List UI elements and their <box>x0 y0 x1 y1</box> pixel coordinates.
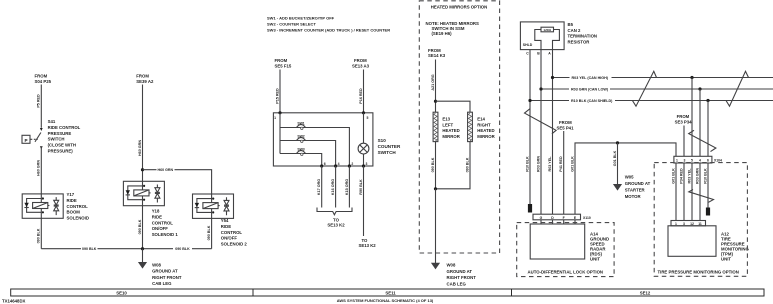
switch SW2 <box>280 141 336 167</box>
svg-text:SE3 P34: SE3 P34 <box>675 119 693 124</box>
solenoid Y17 <box>22 194 63 218</box>
wire CAN high drop (pin A) <box>552 50 554 215</box>
svg-text:CONTROL: CONTROL <box>152 220 174 225</box>
svg-text:COUNTER: COUNTER <box>378 144 401 149</box>
svg-text:HEATED MIRRORS OPTION: HEATED MIRRORS OPTION <box>431 5 488 10</box>
node mirror junction top <box>434 100 437 103</box>
svg-text:GROUND AT: GROUND AT <box>152 269 178 274</box>
wire 090 BLK below Y54 <box>211 218 213 248</box>
svg-text:AUTO-DIFFERENTIAL LOCK OPTION: AUTO-DIFFERENTIAL LOCK OPTION <box>528 269 604 274</box>
svg-text:RIGHT FRONT: RIGHT FRONT <box>152 275 182 280</box>
svg-text:P41 RED: P41 RED <box>559 156 563 172</box>
svg-text:AWS SYSTEM FUNCTIONAL SCHEMATI: AWS SYSTEM FUNCTIONAL SCHEMATIC (4 OF 13… <box>337 298 434 303</box>
svg-text:6: 6 <box>707 159 709 163</box>
svg-text:3: 3 <box>684 159 686 163</box>
svg-text:H60 GRN: H60 GRN <box>158 168 174 172</box>
wire CAN shield drop (pin C) <box>529 50 531 204</box>
resistor box B5 <box>520 22 564 50</box>
svg-text:TIRE PRESSURE MONITORING OPTIO: TIRE PRESSURE MONITORING OPTION <box>658 269 739 274</box>
svg-text:SE10: SE10 <box>116 290 127 295</box>
svg-text:SWITCH: SWITCH <box>48 137 65 142</box>
wire CAN YEL drop <box>691 78 693 157</box>
svg-text:RIDE: RIDE <box>152 214 162 219</box>
wire K16 ORG <box>335 166 337 208</box>
wire H60 GRN to Y54 <box>143 170 212 194</box>
ground W08 <box>139 262 147 268</box>
svg-text:S41: S41 <box>48 119 56 124</box>
svg-text:SW1: SW1 <box>297 121 304 125</box>
svg-text:R03 YEL (CAN HIGH): R03 YEL (CAN HIGH) <box>572 76 609 80</box>
svg-text:R10 BLK (CAN SHIELD): R10 BLK (CAN SHIELD) <box>571 99 613 103</box>
svg-text:BOOM: BOOM <box>67 210 81 215</box>
svg-text:SE13 K2: SE13 K2 <box>327 223 345 228</box>
twist symbol 5 <box>689 190 714 203</box>
svg-text:PRESSURE: PRESSURE <box>48 131 72 136</box>
svg-text:R03 YEL: R03 YEL <box>548 156 552 172</box>
svg-text:SE14 K3: SE14 K3 <box>428 53 446 58</box>
wire G01 BLK to ground <box>617 143 619 184</box>
svg-text:090 BLK: 090 BLK <box>138 219 142 234</box>
svg-text:R03 GRN: R03 GRN <box>536 156 540 172</box>
pin 6 <box>320 164 323 167</box>
twist symbol 3 <box>525 109 557 134</box>
svg-text:120Ω: 120Ω <box>543 28 551 32</box>
wire rail inside <box>279 113 281 154</box>
svg-text:090 BLK: 090 BLK <box>175 247 190 251</box>
pin 5 <box>362 111 365 114</box>
section bar <box>11 289 764 296</box>
twist symbol 2 <box>726 71 749 106</box>
svg-text:Y17: Y17 <box>67 192 75 197</box>
svg-text:CAB LEG: CAB LEG <box>152 281 172 286</box>
wire K15 ORG <box>348 166 350 208</box>
svg-text:SE13 K2: SE13 K2 <box>359 243 377 248</box>
svg-text:TERMINATION: TERMINATION <box>568 34 598 39</box>
wire CAN LOW bus <box>541 88 773 90</box>
wire P5 RED <box>40 85 42 128</box>
switch SW3 <box>280 154 322 167</box>
svg-text:SHLD: SHLD <box>523 43 533 47</box>
svg-text:090 BLK: 090 BLK <box>82 247 97 251</box>
node W05 junction <box>616 141 619 144</box>
svg-text:SW2: SW2 <box>297 134 304 138</box>
svg-text:X110: X110 <box>583 216 591 220</box>
switch SW1 <box>280 128 349 167</box>
ground W05 <box>614 184 622 190</box>
svg-text:090 BLK: 090 BLK <box>37 228 41 243</box>
pin 4 <box>334 164 337 167</box>
pressure actuator P box <box>22 135 30 143</box>
svg-text:H60 GRN: H60 GRN <box>138 140 142 156</box>
wire to E14 <box>436 101 471 112</box>
svg-text:R03 GRN: R03 GRN <box>695 168 699 184</box>
svg-text:SOLENOID: SOLENOID <box>67 216 89 221</box>
wire G01 BLK ground run <box>575 143 676 214</box>
svg-text:RIGHT: RIGHT <box>477 122 491 127</box>
svg-text:STARTER: STARTER <box>625 187 646 192</box>
svg-text:4: 4 <box>338 162 340 166</box>
svg-text:090 BLK: 090 BLK <box>431 157 435 172</box>
wire 090 BLK below E14 <box>436 142 471 189</box>
svg-text:CAN 2: CAN 2 <box>568 28 582 33</box>
wire R10 BLK taped <box>707 163 709 208</box>
svg-text:G01 BLK: G01 BLK <box>671 168 675 184</box>
ground W08 (mirrors) <box>432 263 440 269</box>
wire R03 YEL drop <box>691 163 693 221</box>
wire 090 BLK below E13 <box>435 142 437 189</box>
svg-text:SE39 A2: SE39 A2 <box>136 79 154 84</box>
svg-text:S04 P25: S04 P25 <box>35 79 52 84</box>
taped wire block <box>706 208 710 216</box>
svg-text:GROUND AT: GROUND AT <box>625 181 651 186</box>
svg-text:MOTOR: MOTOR <box>625 194 642 199</box>
svg-text:UNIT: UNIT <box>721 257 731 262</box>
svg-text:K16 ORG: K16 ORG <box>331 179 335 195</box>
svg-text:P5 RED: P5 RED <box>37 94 41 108</box>
svg-text:1: 1 <box>274 116 276 120</box>
svg-text:GROUND AT: GROUND AT <box>447 269 473 274</box>
svg-text:W08: W08 <box>152 262 161 267</box>
svg-text:P15 RED: P15 RED <box>275 88 279 104</box>
svg-text:K17 ORG: K17 ORG <box>317 179 321 195</box>
node junction H60 <box>141 168 144 171</box>
pin 1 <box>278 111 281 114</box>
svg-text:SE5 P41: SE5 P41 <box>557 125 575 130</box>
svg-text:R03 YEL: R03 YEL <box>687 168 691 184</box>
svg-text:R10 BLK: R10 BLK <box>703 168 707 184</box>
svg-text:LEFT: LEFT <box>442 122 453 127</box>
svg-text:2: 2 <box>351 162 353 166</box>
wire K17 ORG <box>321 166 323 208</box>
wire H60 GRN vertical <box>142 85 144 182</box>
svg-text:1: 1 <box>675 222 677 226</box>
svg-text:MIRROR: MIRROR <box>442 134 460 139</box>
svg-text:SWITCH: SWITCH <box>378 150 397 155</box>
wire to ground <box>142 249 144 263</box>
svg-text:SE11: SE11 <box>385 290 396 295</box>
svg-text:W05: W05 <box>625 174 634 179</box>
svg-text:CONTROL: CONTROL <box>221 230 243 235</box>
svg-text:PRESSURE): PRESSURE) <box>48 149 74 154</box>
node mirror junction bottom <box>434 187 437 190</box>
svg-text:SE5 F15: SE5 F15 <box>275 63 292 68</box>
option box heated mirrors <box>419 1 499 253</box>
svg-text:3: 3 <box>683 222 685 226</box>
svg-text:SW3: SW3 <box>297 147 304 151</box>
svg-text:SE12: SE12 <box>640 290 651 295</box>
wire P16 RED <box>363 70 365 113</box>
svg-text:12: 12 <box>690 222 694 226</box>
svg-text:11: 11 <box>698 222 702 226</box>
svg-text:5: 5 <box>367 116 369 120</box>
heater element E14 <box>468 112 473 141</box>
wire CAN SHIELD bus <box>530 100 773 102</box>
twist symbol 1 <box>632 71 656 106</box>
svg-text:R90 BLK: R90 BLK <box>359 179 363 195</box>
svg-text:H60 GRN: H60 GRN <box>37 160 41 176</box>
svg-text:ON/OFF: ON/OFF <box>221 236 238 241</box>
svg-text:090 BLK: 090 BLK <box>207 225 211 240</box>
wire R90 BLK <box>363 166 365 236</box>
lamp counter light <box>363 113 365 143</box>
pin 3 <box>362 164 365 167</box>
svg-text:1: 1 <box>676 159 678 163</box>
switch S41 contact arrows <box>40 128 43 131</box>
connector X104 <box>674 156 712 163</box>
svg-text:G: G <box>540 216 543 220</box>
svg-text:6: 6 <box>324 162 326 166</box>
svg-text:P: P <box>24 138 27 143</box>
unit A14 radar <box>530 224 585 259</box>
solenoid Y18 <box>123 181 164 205</box>
svg-text:SW1 - ADD BUCKET/ZERO/TIP OFF: SW1 - ADD BUCKET/ZERO/TIP OFF <box>267 15 335 20</box>
svg-text:Y18: Y18 <box>152 209 160 214</box>
wire CAN GRN drop <box>699 89 701 156</box>
svg-text:4: 4 <box>699 159 701 163</box>
svg-text:E14: E14 <box>477 116 485 121</box>
svg-text:(CLOSE WITH: (CLOSE WITH <box>48 143 76 148</box>
pin 2 <box>348 164 351 167</box>
wire to ground <box>435 189 437 263</box>
svg-text:UNIT: UNIT <box>590 257 600 262</box>
wire P41 RED <box>563 131 565 214</box>
twist symbol 4 <box>689 130 716 151</box>
svg-text:W08: W08 <box>447 263 456 268</box>
wire G01 BLK drop <box>675 163 677 221</box>
svg-text:Y54: Y54 <box>221 218 229 223</box>
resistor 120 ohm <box>541 27 554 32</box>
svg-text:E13: E13 <box>442 116 450 121</box>
svg-text:TX14648DX: TX14648DX <box>2 299 26 304</box>
svg-text:A21 ORG: A21 ORG <box>431 74 435 90</box>
switch box S10 <box>273 113 373 166</box>
svg-text:CAB LEG: CAB LEG <box>447 282 467 287</box>
wire resistor leads <box>535 30 541 50</box>
svg-text:SE13 A3: SE13 A3 <box>352 63 370 68</box>
wire CAN low drop (pin B) <box>540 50 542 215</box>
svg-text:HEATED: HEATED <box>477 128 494 133</box>
brace to SE13 <box>317 208 352 215</box>
solenoid Y54 <box>193 194 234 218</box>
svg-text:P34 RED: P34 RED <box>679 168 683 184</box>
option box tire pressure monitoring <box>654 163 747 277</box>
node ground junction <box>141 247 144 250</box>
svg-text:RIDE: RIDE <box>221 224 231 229</box>
wire A21 ORG <box>435 60 437 113</box>
wire 090 BLK ground bus <box>41 248 211 250</box>
svg-text:R03 GRN (CAN LOW): R03 GRN (CAN LOW) <box>571 88 609 92</box>
svg-text:RIDE CONTROL: RIDE CONTROL <box>48 125 81 130</box>
svg-text:S10: S10 <box>378 138 387 143</box>
wire P34 RED <box>683 126 685 157</box>
wire CAN HIGH bus <box>553 77 773 79</box>
connector A12 header <box>671 221 706 226</box>
svg-text:MIRROR: MIRROR <box>477 134 495 139</box>
svg-text:SW2 - COUNTER SELECT: SW2 - COUNTER SELECT <box>267 21 316 26</box>
taped wire R10 BLK <box>528 204 532 213</box>
heater element E13 <box>433 112 438 141</box>
svg-text:P16 RED: P16 RED <box>359 88 363 104</box>
svg-text:CONTROL: CONTROL <box>67 204 89 209</box>
wire 090 BLK below Y18 <box>142 206 144 249</box>
svg-text:(SE19 H6): (SE19 H6) <box>432 31 453 36</box>
svg-text:090 BLK: 090 BLK <box>465 157 469 172</box>
svg-text:SOLENOID 1: SOLENOID 1 <box>152 232 179 237</box>
wire R03 GRN drop <box>699 163 701 221</box>
wire 090 BLK below Y17 <box>40 218 42 248</box>
svg-text:5: 5 <box>691 159 693 163</box>
svg-text:K15 ORG: K15 ORG <box>345 179 349 195</box>
wire CAN BLK drop <box>707 101 709 157</box>
svg-text:RIDE: RIDE <box>67 198 77 203</box>
svg-text:F: F <box>563 216 565 220</box>
wire P34 RED drop <box>683 163 685 221</box>
svg-text:B5: B5 <box>568 22 574 27</box>
svg-text:ON/OFF: ON/OFF <box>152 226 169 231</box>
svg-text:G01 BLK: G01 BLK <box>613 150 617 166</box>
wire stubs X110 to A14 <box>541 220 575 224</box>
svg-text:3: 3 <box>366 162 368 166</box>
svg-text:G01 BLK: G01 BLK <box>570 156 574 172</box>
switch S41 blade <box>35 133 41 142</box>
svg-text:R10 BLK: R10 BLK <box>525 156 529 172</box>
connector X110 <box>533 214 581 220</box>
wire P15 RED <box>279 70 281 113</box>
svg-text:SOLENOID 2: SOLENOID 2 <box>221 242 248 247</box>
svg-text:HEATED: HEATED <box>442 128 459 133</box>
option box auto-differential lock <box>517 223 614 277</box>
svg-text:SW3 - INCREMENT COUNTER (ADD T: SW3 - INCREMENT COUNTER (ADD TRUCK ) / R… <box>267 27 390 32</box>
svg-text:RIGHT FRONT: RIGHT FRONT <box>447 275 477 280</box>
unit A12 TPM <box>668 226 716 256</box>
svg-text:RESISTOR: RESISTOR <box>568 39 591 44</box>
